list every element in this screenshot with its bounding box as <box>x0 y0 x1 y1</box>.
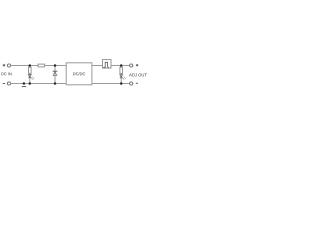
terminal minus sign DC IN - <box>3 83 5 85</box>
label ADJ OUT <box>129 73 147 76</box>
terminal plus sign DC IN + <box>3 64 6 67</box>
wire top input <box>11 65 67 67</box>
junction node top-left <box>29 64 32 67</box>
terminal circle DC IN + <box>7 64 10 67</box>
wire LED branch left <box>29 66 31 84</box>
junction node top-right <box>120 64 123 67</box>
DC/DC converter module U1 <box>66 63 92 85</box>
wire bottom input <box>11 83 67 85</box>
wire zener branch <box>54 66 56 84</box>
resistor R2 (right LED branch) <box>120 67 123 73</box>
junction node bottom-right <box>120 82 123 85</box>
pulse symbol inside adjust box <box>103 62 109 67</box>
junction node zener bottom <box>54 82 57 85</box>
wire top output <box>92 65 130 67</box>
trimmer / adjust box with pulse symbol <box>103 60 112 69</box>
LED D3 (right indicator) <box>120 75 123 78</box>
label DC/DC <box>73 72 85 75</box>
wire bottom output <box>92 83 130 85</box>
ground <box>22 86 26 88</box>
label DC IN <box>1 72 11 75</box>
terminal circle ADJ OUT + <box>130 64 133 67</box>
zener diode D2 (input protection) <box>53 71 58 75</box>
wire LED branch right <box>120 66 122 84</box>
LED D3 emission arrows <box>122 77 126 80</box>
LED D1 emission arrows <box>31 77 35 80</box>
junction node ground <box>23 82 26 85</box>
terminal plus sign ADJ OUT + <box>136 64 138 66</box>
terminal minus sign ADJ OUT - <box>136 82 138 84</box>
terminal circle ADJ OUT - <box>130 82 133 85</box>
fuse F1 <box>38 64 45 67</box>
junction node bottom-left <box>29 82 32 85</box>
junction node zener top <box>54 64 57 67</box>
resistor R1 (left LED branch) <box>29 67 32 73</box>
terminal circle DC IN - <box>7 82 10 85</box>
LED D1 (left indicator) <box>28 74 31 77</box>
